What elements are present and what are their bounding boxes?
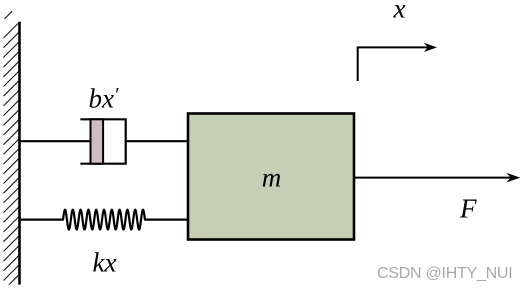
damper cylinder xyxy=(80,119,125,163)
svg-text:bx′: bx′ xyxy=(89,84,119,114)
svg-text:F: F xyxy=(459,193,477,223)
wall xyxy=(18,22,21,285)
svg-text:kx: kx xyxy=(93,248,117,278)
wire: damper to mass xyxy=(126,140,189,142)
force arrow F head xyxy=(506,173,520,183)
damper piston plate xyxy=(91,119,104,163)
svg-text:CSDN @IHTY_NUI: CSDN @IHTY_NUI xyxy=(377,265,512,282)
x coordinate axis corner xyxy=(358,47,428,81)
svg-text:x: x xyxy=(393,0,406,23)
force arrow F shaft xyxy=(354,177,512,179)
wire: wall to damper piston rod xyxy=(20,140,92,142)
mass m block xyxy=(188,114,354,240)
wall hatching xyxy=(4,11,20,290)
svg-text:m: m xyxy=(262,163,282,193)
x axis arrow head xyxy=(424,43,437,52)
spring kx xyxy=(20,210,189,230)
